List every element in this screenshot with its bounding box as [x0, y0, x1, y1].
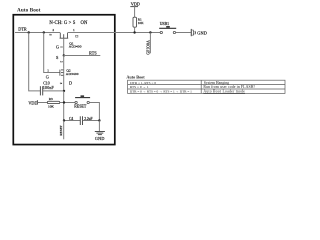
auto-boot enclosure box	[13, 15, 115, 145]
svg-text:10K: 10K	[48, 105, 54, 109]
node junction C4 left	[63, 119, 65, 121]
earth ground symbol (right)	[191, 29, 195, 36]
node junction R1	[133, 31, 135, 33]
wire C4 left lead	[64, 120, 80, 122]
wire Q1 gate stem	[63, 38, 65, 55]
svg-text:VDD: VDD	[131, 2, 140, 7]
capacitor C4 plates	[80, 116, 82, 125]
transistor Q1 symbol (N-MOSFET, horizontal)	[60, 33, 69, 38]
svg-text:VDD: VDD	[28, 101, 37, 106]
wire Q1 gate to Q2 drain vertical	[63, 56, 65, 69]
svg-text:Auto Boot Loader mode: Auto Boot Loader mode	[203, 90, 245, 94]
svg-text:1: 1	[47, 68, 49, 72]
wire RTS stub	[64, 55, 101, 57]
wire Q2 drain-source vertical through	[63, 69, 65, 91]
svg-text:USB1: USB1	[160, 22, 169, 26]
wire C10 left riser and lead	[29, 33, 41, 91]
svg-text:100nF: 100nF	[43, 86, 55, 90]
ground symbol (bottom)	[95, 132, 105, 135]
svg-text:S: S	[49, 34, 53, 36]
svg-text:Auto Boot: Auto Boot	[17, 8, 41, 14]
wire DTR horizontal right segment	[68, 32, 161, 34]
svg-text:RTS: RTS	[89, 50, 97, 55]
node junction DTR / Q2 gate riser	[43, 31, 45, 33]
wire DTR to Q2 gate riser	[44, 33, 60, 73]
resistor R3 body	[47, 101, 59, 103]
push button USB1	[159, 26, 176, 34]
wire C4 right lead	[83, 120, 100, 122]
node junction C10/Q2	[63, 90, 65, 92]
wire GPIO0 stub	[149, 33, 151, 54]
svg-text:AO3400: AO3400	[66, 72, 79, 76]
svg-text:Auto Boot: Auto Boot	[126, 75, 145, 80]
push button RESET	[75, 95, 90, 103]
svg-text:N-CH: G > S ON: N-CH: G > S ON	[49, 21, 88, 26]
node junction DTR / C10 riser	[28, 31, 30, 33]
transistor Q2 symbol (N-MOSFET, vertical)	[60, 70, 64, 76]
svg-text:DTR = 0 → RTS = 0 → RTS = 1 →: DTR = 0 → RTS = 0 → RTS = 1 → DTR = 1	[130, 90, 192, 94]
svg-text:10K: 10K	[138, 21, 144, 25]
svg-text:AO3400: AO3400	[69, 45, 82, 49]
svg-text:S: S	[56, 55, 59, 60]
svg-text:R3: R3	[49, 97, 53, 101]
wire VDD to R3	[37, 102, 47, 104]
wire to ground	[98, 121, 100, 132]
svg-text:GND: GND	[197, 30, 207, 35]
svg-text:RESET: RESET	[59, 124, 63, 135]
svg-text:GND: GND	[95, 136, 105, 141]
svg-text:Run from user code in FLASH!: Run from user code in FLASH!	[203, 85, 255, 89]
svg-text:G: G	[56, 44, 59, 49]
node junction C4 right	[98, 119, 100, 121]
svg-text:DTR: DTR	[18, 27, 27, 32]
node junction R3 / vertical	[63, 101, 65, 103]
wire vertical Q2 to R3 row	[63, 91, 65, 121]
svg-text:RTS = 0 → 1: RTS = 0 → 1	[130, 85, 149, 89]
node junction GPIO0 stub	[149, 31, 151, 33]
wire RESET net stub	[63, 121, 65, 140]
gate lead dash of Q1	[60, 46, 63, 48]
svg-text:1: 1	[73, 28, 75, 32]
svg-text:D: D	[69, 81, 72, 86]
table frame	[128, 80, 285, 93]
svg-text:2: 2	[60, 61, 64, 63]
wire DTR horizontal left segment	[15, 32, 60, 34]
svg-text:GPIO0A: GPIO0A	[146, 40, 150, 55]
resistor R1 body	[133, 17, 137, 27]
wire C10 right lead	[43, 90, 64, 92]
wire button to corner	[89, 103, 99, 121]
wire R3 to button	[60, 102, 75, 104]
svg-text:RESET: RESET	[74, 104, 87, 109]
svg-text:2: 2	[52, 28, 54, 32]
pin name D of Q1 (rotated marker)	[76, 35, 78, 37]
svg-text:3: 3	[59, 83, 63, 85]
node junction RTS	[63, 54, 65, 56]
wire VDD to R1	[134, 7, 136, 18]
capacitor C10 plates	[40, 86, 42, 95]
wire USB1 to earth	[176, 32, 191, 34]
svg-text:G: G	[46, 75, 49, 80]
wire R1 to DTR net	[134, 27, 136, 32]
